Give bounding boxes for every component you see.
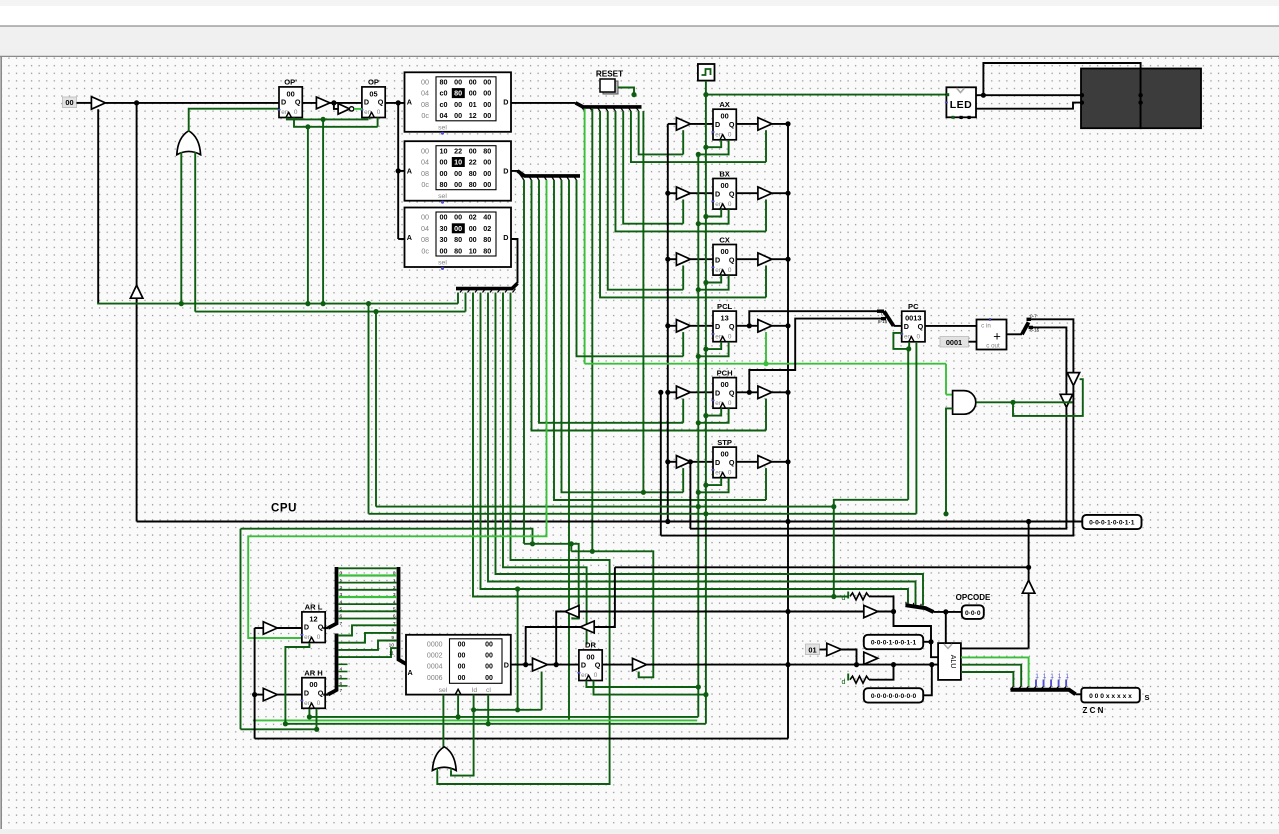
wire PC-en net down x=908 to row y=499.8 (907, 349, 909, 500)
wire ROM bit to BX input-buffer enable (623, 111, 683, 224)
clock tap for PCH (703, 413, 708, 418)
svg-text:AR L: AR L (305, 603, 323, 612)
right register bus vertical x=788 (787, 124, 789, 739)
svg-text:7: 7 (340, 621, 343, 627)
svg-text:00: 00 (454, 78, 462, 87)
svg-text:D: D (281, 98, 286, 107)
svg-text:CX: CX (719, 235, 730, 244)
wire ROM bit to BX output-buffer enable (615, 111, 766, 231)
splitter SP5 (PC+1 split to two bytes) (1022, 322, 1029, 334)
svg-text:0: 0 (728, 333, 732, 340)
ROM3 leg bit0 riser to row 303.6 (457, 293, 459, 304)
svg-text:0 0 0 x x x x x: 0 0 0 x x x x x (1089, 693, 1132, 700)
wire up-over to display matrix top (983, 63, 1140, 95)
svg-text:00: 00 (483, 89, 491, 98)
bottom data bus wire y=738.6 (255, 738, 788, 740)
svg-text:00: 00 (586, 652, 594, 661)
svg-text:00: 00 (454, 100, 462, 109)
junction RAM-ld riser on row y=589 (515, 586, 520, 591)
svg-text:00: 00 (485, 653, 493, 660)
input buffer ARL (263, 622, 277, 635)
inverter output wire (bright) to OP en (354, 108, 362, 110)
wire CX Q to output buffer (736, 258, 758, 260)
output tri-state buffer AX (758, 118, 772, 130)
ROM3 leg bit1 riser to row 311.6 (465, 293, 467, 312)
svg-text:D: D (364, 98, 369, 107)
svg-text:80: 80 (454, 246, 462, 255)
wire SP5 bit8-15 to down-buffer U7 (1031, 327, 1066, 394)
svg-text:01: 01 (808, 645, 816, 654)
svg-text:10: 10 (469, 246, 477, 255)
wire pin 01 to buffer U12 (820, 649, 827, 651)
enable tap for CX (en bus to register en) (696, 287, 701, 292)
splitter SP3 legs / teeth (460, 289, 463, 293)
clock tap for AX (703, 145, 708, 150)
SP10 tooth bit0 (1010, 686, 1013, 689)
junction on clock net x=323.1 (321, 117, 326, 122)
wire output buffer to right bus (772, 461, 788, 463)
wire ROM bit vertical x=643.4 down to STP enable row (642, 111, 644, 492)
wire ld net down to OR gate right input (451, 710, 474, 776)
ALU flag outputs to ZCN splitter (961, 657, 1029, 686)
clock component CLK1 (698, 64, 715, 81)
wire D1 to node (923, 641, 931, 643)
svg-text:LED: LED (950, 99, 973, 111)
svg-text:OP': OP' (284, 78, 297, 87)
svg-text:00: 00 (720, 380, 728, 389)
wire SP8 to RAM A (406, 671, 409, 673)
splitter SP4 combining PCL/PCH into PC input (877, 310, 884, 313)
register ARL (300, 603, 325, 643)
register BX (712, 169, 737, 209)
ALU result row wire y=567.3 (black) (615, 566, 1029, 568)
svg-text:02: 02 (483, 224, 491, 233)
splitter SP1 leg wire bit6 (to net y=551.3) (591, 109, 593, 551)
bright bottom row y=720.4 (253, 719, 697, 721)
svg-text:00: 00 (454, 180, 462, 189)
output tri-state buffer STP (758, 456, 772, 469)
svg-text:0c: 0c (421, 246, 429, 255)
staircase wire bit 8 (338, 625, 397, 635)
long wire x=368.5 from row 303.6 down to PC-clock row y=513.8 (368, 304, 370, 514)
wire PCL Q to output buffer (736, 325, 758, 327)
svg-text:00: 00 (469, 235, 477, 244)
svg-text:0·0·0·1·0·0·1·1: 0·0·0·1·0·0·1·1 (871, 640, 917, 647)
svg-text:80: 80 (454, 89, 462, 98)
AND G2 lower input wire from clock row (946, 408, 953, 513)
enable row y=506.6 wire (OP-en / PC-en net) (376, 506, 834, 508)
stub wire bit 4 (338, 663, 348, 665)
splitter SP7 (ARH output fan) (323, 693, 328, 695)
svg-text:D: D (715, 458, 720, 467)
svg-text:0: 0 (728, 400, 732, 407)
DR output row wire y=664.6 to ALU B (647, 664, 939, 666)
svg-text:D: D (503, 233, 508, 242)
clock bus vertical x=705.9 (705, 95, 707, 724)
svg-text:80: 80 (483, 235, 491, 244)
wire ROM3 D to splitter SP3 (511, 239, 518, 283)
wire pin to buffer U1 (77, 102, 92, 104)
left register bus vertical x=668 (667, 124, 669, 522)
SP10 tooth bit6 (1056, 686, 1059, 689)
wire output buffer to right bus (772, 391, 788, 393)
svg-text:80: 80 (483, 246, 491, 255)
clock tap for BX (703, 214, 708, 219)
register STP (712, 438, 737, 478)
register OP (360, 78, 385, 118)
svg-text:08: 08 (421, 100, 429, 109)
riser to OP clock pin (369, 118, 371, 120)
OP' clock wire down (287, 118, 369, 120)
svg-text:D: D (715, 255, 720, 264)
svg-text:0: 0 (728, 469, 732, 476)
splitter cross wire bit4 (338, 596, 397, 598)
splitter SP3 spine (456, 283, 518, 288)
SP10 tooth bit4 (1041, 686, 1044, 689)
wire ROM bit to STP output-buffer enable (554, 180, 766, 500)
svg-text:80: 80 (440, 180, 448, 189)
wire AX Q to output buffer (736, 123, 758, 125)
enable bus vertical x=698.3 (697, 154, 699, 717)
svg-text:00: 00 (483, 100, 491, 109)
svg-text:D: D (715, 189, 720, 198)
svg-text:D: D (581, 661, 586, 670)
wire result riser up to main bus (1028, 522, 1030, 568)
svg-text:80: 80 (440, 78, 448, 87)
wire splitter to PC D (894, 325, 902, 327)
wire buffer to PCL D (690, 325, 713, 327)
svg-text:30: 30 (440, 235, 448, 244)
svg-text:Q: Q (729, 120, 735, 129)
svg-text:00: 00 (454, 213, 462, 222)
svg-text:OP: OP (368, 78, 379, 87)
read buffer U8 (533, 658, 548, 671)
svg-text:0: 0 (728, 201, 732, 208)
svg-text:PCL: PCL (717, 302, 733, 311)
svg-text:0-7: 0-7 (1030, 314, 1037, 319)
wire PCH Q up to PC splitter (bits 8-15) (747, 390, 752, 395)
row y=551.3 wire (to DR read-buffer enable) (571, 551, 653, 677)
OR G3 input stubs (436, 768, 438, 771)
clock output wire down to clock bus (705, 81, 707, 95)
register PCL (712, 302, 737, 342)
wire OP' Q to OP D with buffer (302, 102, 362, 104)
wire opcode to display and ALU select (934, 611, 962, 613)
buffer U9 pointing left (565, 606, 579, 618)
output tri-state buffer BX (758, 187, 772, 200)
wire buffer to PCH D (690, 391, 713, 393)
wire output buffer to right bus (772, 325, 788, 327)
control row y=716.9 (register clock row) (309, 716, 698, 718)
wire display D1 row to ALU A (931, 642, 938, 657)
wire STP Q to output buffer (736, 461, 758, 463)
svg-text:d: d (842, 677, 846, 686)
wire left bus to input buffer of PCL (668, 325, 677, 327)
svg-text:1: 1 (1050, 673, 1054, 680)
dot matrix display DM1 (dark) (1081, 69, 1141, 129)
U7 enable wire (1067, 401, 1073, 403)
svg-text:00: 00 (483, 158, 491, 167)
svg-text:0004: 0004 (427, 664, 443, 671)
ALU-A row wire y=611.5 (579, 611, 894, 613)
svg-text:40: 40 (483, 213, 491, 222)
constant 0001 pin (940, 337, 969, 348)
ARH clock wire to row y=716.9 (308, 709, 310, 717)
wire ROM1 D to splitter SP1 (511, 102, 576, 104)
OR G1 output wire to OP' en (189, 109, 279, 132)
matrix input pin marks (1080, 93, 1084, 97)
input pin 00 (63, 97, 77, 108)
wire buffer to node, main top bus (105, 102, 279, 104)
register DR (577, 641, 602, 681)
splitter SP2 leg bit7 joining row 543.8 (523, 180, 525, 544)
svg-text:0-7: 0-7 (881, 312, 888, 317)
svg-text:00: 00 (440, 246, 448, 255)
LED component (946, 87, 976, 117)
splitter SP1 legs / teeth (581, 107, 584, 111)
svg-text:Q: Q (729, 458, 735, 467)
wire ROM bit to AX input-buffer enable (639, 111, 684, 154)
svg-text:00: 00 (720, 112, 728, 121)
svg-text:00: 00 (440, 213, 448, 222)
svg-text:00: 00 (454, 224, 462, 233)
output tri-state buffer PCH (758, 386, 772, 399)
svg-text:04: 04 (440, 111, 448, 120)
ROM ROM2 (code low) (405, 141, 512, 204)
svg-text:PCH: PCH (717, 368, 733, 377)
register PC (900, 302, 925, 342)
svg-text:04: 04 (421, 158, 429, 167)
wire ROM bit to AX output-buffer enable (631, 111, 766, 162)
svg-text:00: 00 (720, 181, 728, 190)
svg-text:D: D (715, 388, 720, 397)
svg-text:0006: 0006 (427, 675, 443, 682)
DR en/clock wires to buses (586, 681, 698, 688)
wire OP Q to ROM1 A (385, 102, 404, 104)
svg-text:0: 0 (917, 334, 921, 341)
input buffer STP (676, 456, 690, 469)
wire x=307.9 down to y=303.6 net (307, 127, 309, 304)
splitter SP8 (recombine to RAM address) (399, 567, 408, 665)
splitter cross wire bit5 (338, 603, 397, 605)
svg-text:0c: 0c (421, 111, 429, 120)
svg-text:08: 08 (421, 169, 429, 178)
register AX (712, 100, 737, 140)
register PCH (712, 368, 737, 408)
clock tap for PCL (703, 347, 708, 352)
wire clock to LED (y=94.6) (706, 94, 947, 96)
svg-text:10: 10 (440, 146, 448, 155)
wire left bus to input buffer of STP (668, 461, 677, 463)
pull resistor R1 (d) (847, 592, 849, 599)
svg-text:Q: Q (918, 322, 924, 331)
OR gate G1 (177, 131, 201, 155)
tri-state buffer U6 (down) (1067, 373, 1080, 386)
wire LED pin to display matrix pin1 (976, 94, 1082, 96)
bright net: PCL output-enable row y=363.7 (585, 363, 946, 365)
output buffer U11 (633, 658, 647, 671)
U6 enable wire loop (1013, 379, 1083, 416)
svg-text:c0: c0 (440, 100, 448, 109)
svg-text:00: 00 (720, 450, 728, 459)
wire PCL Q up to PC splitter (bits 0-7) (747, 323, 752, 328)
clock tap for CX (703, 280, 708, 285)
left feed bus x=254.6 from bottom bus (254, 628, 256, 739)
U8 enable wire down to ld net (541, 672, 543, 710)
svg-text:D: D (715, 322, 720, 331)
splitter cross wire bit3 (338, 589, 397, 591)
svg-text:80: 80 (469, 180, 477, 189)
PC enable loop wire (893, 333, 909, 349)
control row y=567 wire (ALU result feed row tap) (503, 293, 587, 645)
wire constant to adder B (969, 341, 977, 343)
svg-text:A: A (408, 668, 413, 677)
svg-text:AX: AX (719, 100, 730, 109)
input buffer PCL (676, 320, 690, 333)
long wire x=376 from row 311.6 down to enable row y=506.6 (375, 312, 377, 507)
AND G2 output wire (976, 401, 1072, 403)
enable tap for PCH (en bus to register en) (696, 420, 701, 425)
svg-text:0: 0 (728, 267, 732, 274)
svg-text:S: S (1145, 693, 1150, 702)
wire buffer to STP D (690, 461, 713, 463)
wire buffer to ARL D (277, 627, 302, 629)
splitter cross wire bit2 (338, 582, 397, 584)
junction ROM address bus (396, 100, 401, 105)
svg-text:00: 00 (440, 169, 448, 178)
svg-text:00: 00 (483, 78, 491, 87)
riser x=1028.6 with buffer U16 (up) (1028, 567, 1030, 580)
svg-text:02: 02 (469, 213, 477, 222)
wire output buffer to right bus (772, 192, 788, 194)
svg-text:c out: c out (986, 343, 1000, 350)
svg-text:12: 12 (469, 111, 477, 120)
register OP' (278, 78, 303, 118)
binary display D2 (00000000) (864, 688, 923, 702)
svg-text:c0: c0 (440, 89, 448, 98)
svg-text:CPU: CPU (271, 503, 297, 515)
junction DR-input node 2 (554, 662, 559, 667)
wire ROM2 D to splitter SP2 (511, 171, 580, 176)
svg-text:sel: sel (438, 260, 447, 267)
svg-text:D: D (503, 98, 508, 107)
svg-text:8-15: 8-15 (878, 319, 888, 324)
svg-text:D: D (715, 120, 720, 129)
splitter SP1 leg wire bit7 (bright, to PCL output-enable row) (584, 109, 586, 364)
RESET push button (603, 81, 618, 94)
output tri-state buffer PCL (758, 320, 772, 333)
svg-text:0: 0 (377, 109, 381, 116)
svg-text:Q: Q (729, 189, 735, 198)
wire ROM bit to CX output-buffer enable (600, 111, 766, 297)
svg-text:A: A (407, 167, 412, 176)
ROM ROM3 (microcode) (405, 208, 512, 271)
enable tap for PCL (en bus to register en) (696, 354, 701, 359)
output tri-state buffer CX (758, 253, 772, 266)
wire buffer to CX D (690, 258, 713, 260)
svg-text:00: 00 (485, 675, 493, 682)
svg-text:00: 00 (309, 680, 317, 689)
net wire y=311.6 (ROM3 bit1) (195, 311, 465, 313)
ALU block U15 (938, 643, 961, 680)
svg-text:sel: sel (438, 193, 447, 200)
svg-text:1: 1 (1065, 673, 1069, 680)
svg-text:c in: c in (981, 323, 991, 330)
wire left bus to input buffer of CX (668, 258, 677, 260)
junction clock/LED net (703, 92, 708, 97)
svg-text:11: 11 (389, 650, 394, 656)
net wire y=303.6 (ROM3 bit0: buffer enable / OR input / OP clock) (97, 303, 458, 305)
svg-text:13: 13 (720, 314, 728, 323)
enable tap for STP (en bus to register en) (696, 490, 701, 495)
svg-text:DR: DR (585, 641, 596, 650)
stub to ROM2 A (398, 170, 404, 172)
OP' pin2 wire down (294, 118, 378, 127)
svg-text:00: 00 (65, 98, 73, 107)
svg-text:00: 00 (483, 180, 491, 189)
input buffer AX (676, 118, 690, 130)
staircase wire bit 11 (338, 648, 397, 657)
input buffer PCH (676, 386, 690, 399)
svg-text:00: 00 (469, 78, 477, 87)
ALU output wire to result riser (961, 647, 1029, 649)
svg-text:D: D (904, 322, 909, 331)
stub wire bit 5 (338, 671, 348, 673)
wire ROM bit to CX input-buffer enable (608, 111, 683, 290)
wire DR Q to output buffer U11 (602, 664, 632, 666)
buffer U2 pointing up on left bus (130, 285, 143, 298)
wire PC Q to adder (925, 325, 977, 327)
svg-text:0·0·0·0·0·0·0·0: 0·0·0·0·0·0·0·0 (871, 693, 917, 700)
svg-text:80: 80 (469, 169, 477, 178)
svg-text:Q: Q (729, 388, 735, 397)
riser to PC-en row (834, 500, 908, 507)
tri-state buffer U7 (down) (1060, 394, 1073, 407)
splitter cross wire bit0 (338, 567, 397, 569)
dot matrix display DM2 (dark) (1141, 69, 1201, 129)
svg-text:sel: sel (438, 124, 447, 131)
splitter SP2 leg wire bit2 (long, to bottom row) (568, 180, 570, 720)
svg-text:10: 10 (454, 158, 462, 167)
buffer U1 enable wire down to net at y=303 (97, 109, 99, 303)
CPU left bus wire lower part (136, 298, 138, 521)
wire ROM bit to STP input-buffer enable (562, 180, 684, 492)
svg-text:0000: 0000 (427, 642, 443, 649)
svg-text:1: 1 (1058, 673, 1062, 680)
input buffer CX (676, 253, 690, 266)
wire PCH Q to output buffer (736, 391, 758, 393)
SP10 tooth bit2 (1025, 686, 1028, 689)
svg-text:00: 00 (454, 169, 462, 178)
svg-text:Q: Q (378, 98, 384, 107)
wire U10 input from ALU result row (594, 567, 615, 627)
svg-text:00: 00 (720, 247, 728, 256)
wire ROM bit to PCL input-buffer enable (577, 180, 684, 356)
svg-text:04: 04 (421, 89, 429, 98)
wire ROM bit to PCH input-buffer enable (539, 180, 683, 423)
svg-text:Q: Q (318, 623, 324, 632)
wire left bus to input buffer of PCH (668, 391, 677, 393)
svg-text:00: 00 (458, 675, 466, 682)
register CX (712, 235, 737, 275)
splitter SP2 legs / teeth (521, 176, 524, 180)
svg-text:1: 1 (1043, 673, 1047, 680)
wire A row jog down to ALU A input (894, 612, 932, 642)
control row y=589 wire (opcode bit 0 / DR load net) (481, 293, 909, 608)
svg-text:ld: ld (472, 687, 478, 694)
svg-text:22: 22 (454, 146, 462, 155)
wire buffer to ARH D (277, 694, 302, 696)
